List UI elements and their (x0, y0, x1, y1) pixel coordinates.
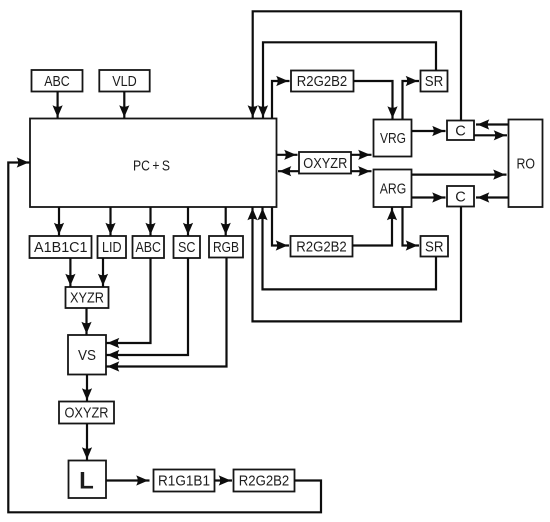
wire L to R1G1B1 (106, 479, 150, 481)
svg-text:VLD: VLD (112, 74, 137, 90)
svg-text:PC + S: PC + S (133, 157, 170, 174)
wire OXYZR(mid) to ARG (351, 170, 372, 172)
block R1G1B1 (154, 470, 215, 492)
svg-text:ABC: ABC (44, 74, 70, 90)
svg-text:R2G2B2: R2G2B2 (297, 74, 348, 90)
wire R1G1B1 to R2G2B2 (215, 479, 233, 481)
block VS (68, 335, 106, 375)
wire PC+S to RGB (225, 207, 227, 236)
wire ARG to RO (412, 174, 507, 176)
wire R2G2B2 to ARG (353, 207, 393, 246)
svg-text:SR: SR (425, 239, 444, 255)
wire C(top) to RO (474, 134, 507, 136)
svg-text:R2G2B2: R2G2B2 (296, 239, 347, 255)
block SC (174, 236, 201, 258)
wire SC to VS (106, 258, 188, 355)
wire OXYZR(mid) to PC+S (278, 170, 299, 172)
block ABC (top input) (32, 70, 83, 92)
block VLD (99, 70, 149, 92)
wire PC+S to OXYZR(mid) (277, 154, 298, 156)
wire R2G2B2 to VRG (354, 81, 393, 120)
block OXYZR (middle) (299, 152, 351, 174)
block RO (509, 120, 543, 208)
block SR (bottom) (421, 236, 449, 257)
block SR (top) (421, 71, 448, 92)
wire PC+S to LID (109, 207, 111, 236)
wire RO to C(bottom) (476, 196, 509, 198)
wire PC+S to R2G2B2 (bottom right) (272, 207, 289, 246)
wire ARG to SR(bottom) (403, 207, 420, 246)
block R2G2B2 (bottom left) (234, 470, 295, 492)
block RGB (209, 236, 243, 258)
wire XYZR to VS (85, 308, 87, 335)
block L (69, 461, 107, 499)
block R2G2B2 (bottom right) (291, 236, 353, 257)
svg-text:OXYZR: OXYZR (65, 406, 109, 422)
block OXYZR (left) (59, 402, 114, 424)
svg-text:R2G2B2: R2G2B2 (239, 474, 290, 490)
wire VRG to SR(top) (403, 81, 420, 120)
wire PC+S to A1B1C1 (58, 207, 60, 236)
svg-text:ABC: ABC (135, 240, 161, 256)
block C (bottom) (447, 186, 474, 207)
wire SR(bottom) to PC+S feedback (263, 207, 437, 289)
wire ARG to C(bottom) (412, 196, 446, 198)
svg-text:OXYZR: OXYZR (303, 156, 347, 172)
block LID (98, 236, 127, 258)
wire RO to C(top) (476, 123, 509, 125)
block C (top) (447, 121, 474, 141)
wire A1B1C1 to XYZR (69, 258, 71, 287)
block XYZR (66, 287, 109, 308)
wire R2G2B2 loop back to PC+S (8, 163, 321, 513)
block ARG (374, 170, 412, 208)
wire RGB to VS (106, 258, 227, 367)
block VRG (374, 120, 412, 157)
svg-text:C: C (455, 189, 466, 205)
wire VS to OXYZR(left) (86, 375, 88, 402)
svg-text:ARG: ARG (380, 181, 407, 197)
wire OXYZR(left) to L (86, 424, 88, 461)
svg-text:XYZR: XYZR (70, 291, 104, 307)
wire PC+S to SC (187, 207, 189, 236)
block R2G2B2 (top right) (291, 71, 354, 92)
block A1B1C1 (30, 236, 92, 258)
svg-text:RO: RO (516, 156, 535, 172)
wire OXYZR(mid) to VRG (351, 154, 372, 156)
svg-text:R1G1B1: R1G1B1 (158, 474, 210, 490)
svg-text:VS: VS (78, 348, 96, 364)
svg-text:SR: SR (425, 74, 444, 90)
svg-text:RGB: RGB (213, 240, 239, 256)
svg-text:A1B1C1: A1B1C1 (34, 240, 88, 256)
block ABC (row) (133, 236, 165, 258)
block PC + S (30, 119, 277, 208)
svg-text:C: C (455, 123, 466, 139)
wire SR(top) to PC+S feedback (263, 42, 436, 118)
wire C(top) to PC+S feedback (253, 11, 461, 120)
wire PC+S to R2G2B2 (top right) (272, 81, 290, 119)
wire VRG to C(top) (412, 130, 446, 132)
wire ABC to PC+S (56, 92, 58, 119)
wire VLD to PC+S (123, 92, 125, 119)
svg-text:SC: SC (178, 240, 196, 256)
svg-text:L: L (79, 468, 94, 495)
wire LID to XYZR (102, 258, 104, 287)
svg-text:VRG: VRG (380, 131, 406, 147)
svg-text:LID: LID (102, 240, 122, 256)
wire PC+S to ABC(row) (149, 207, 151, 236)
wire C(bottom) to PC+S feedback (253, 207, 462, 322)
wire ABC(row) to VS (106, 258, 151, 343)
